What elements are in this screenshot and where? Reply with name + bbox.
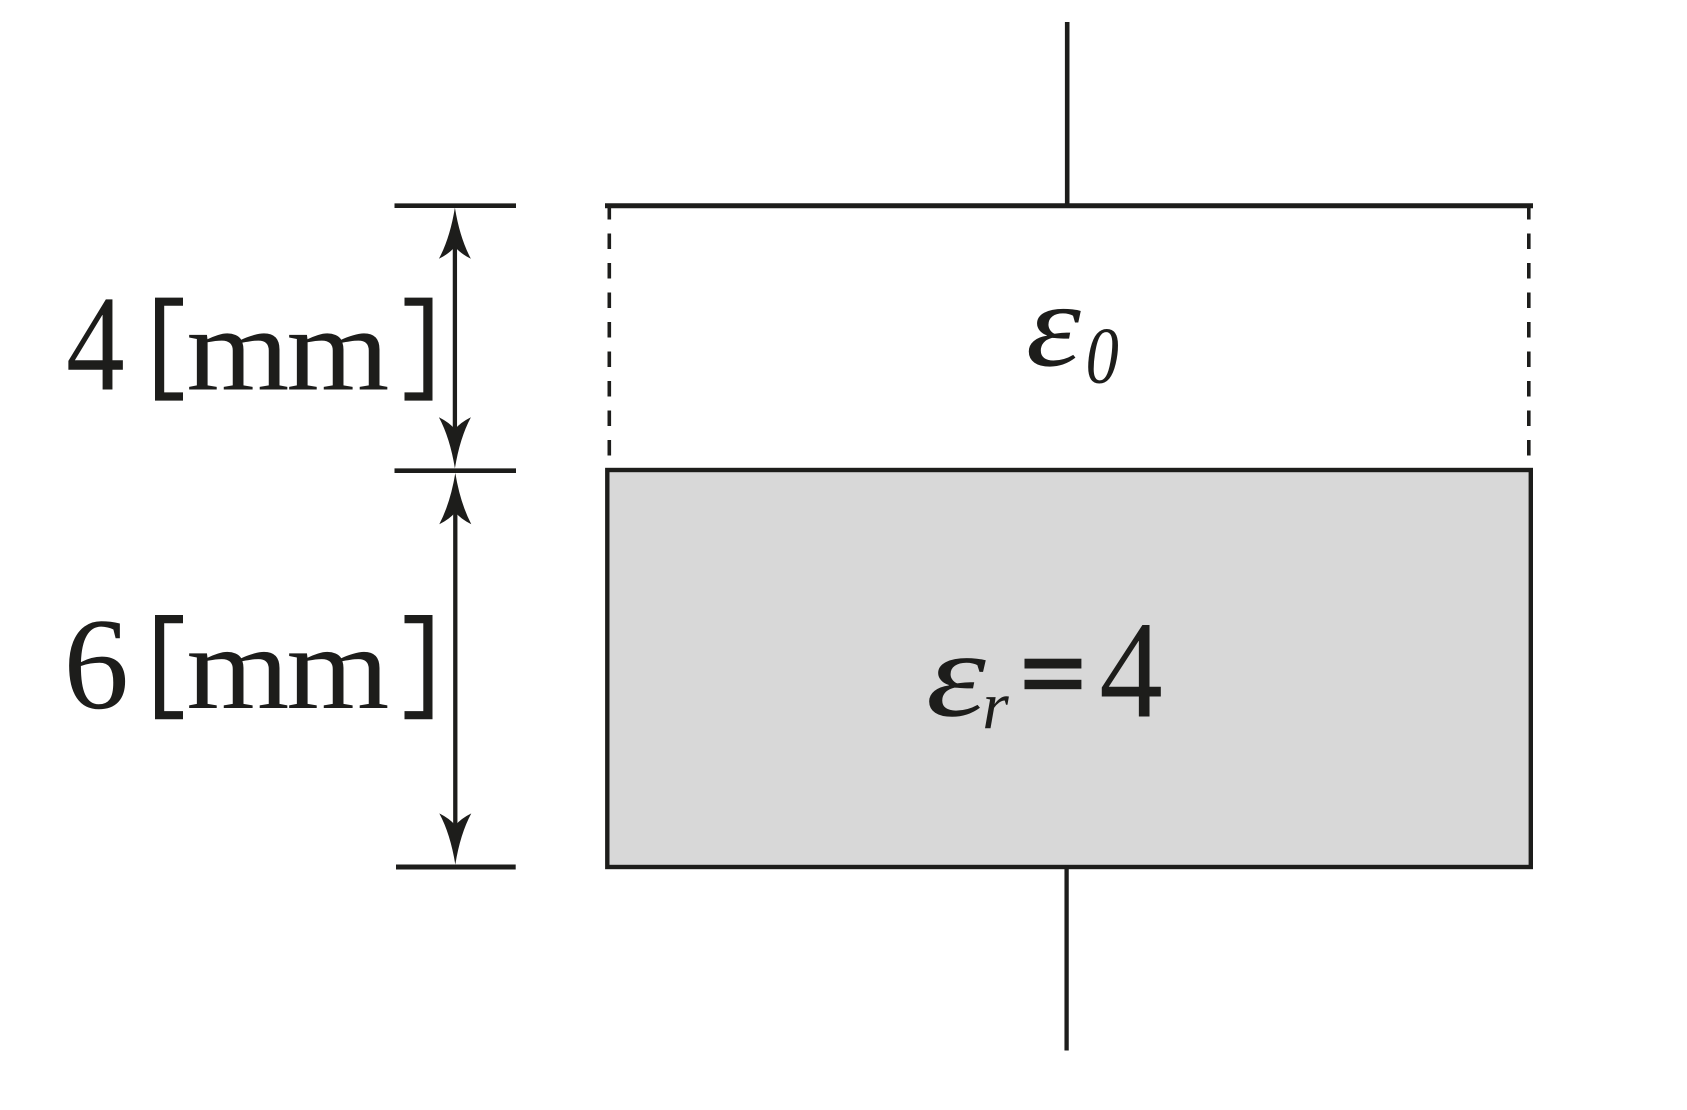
wire bottom lead <box>1064 867 1068 1051</box>
wire top lead <box>1065 22 1070 207</box>
svg-text:4: 4 <box>66 268 125 420</box>
air-gap left dashed boundary <box>607 204 611 462</box>
top capacitor plate <box>605 203 1533 208</box>
svg-text:r: r <box>982 668 1009 744</box>
dimension extension tick middle (air/dielectric interface) <box>395 468 517 473</box>
air-gap right dashed boundary <box>1527 204 1531 462</box>
dielectric slab er=4 <box>607 470 1531 867</box>
label epsilon_r = 4 <box>926 594 1163 748</box>
svg-text:0: 0 <box>1086 313 1119 401</box>
svg-text:ε: ε <box>1026 258 1082 391</box>
dimension extension tick bottom (bottom plate level) <box>396 865 516 870</box>
svg-text:m: m <box>286 284 389 416</box>
svg-text:4: 4 <box>1099 594 1163 748</box>
dimension arrow 4 mm (double-headed) <box>439 208 471 469</box>
svg-text:m: m <box>286 602 389 734</box>
svg-text:m: m <box>186 602 289 734</box>
label 6 [mm] <box>64 592 433 737</box>
svg-text:ε: ε <box>926 608 986 743</box>
svg-text:6: 6 <box>64 592 130 737</box>
label 4 [mm] <box>66 268 432 420</box>
dimension arrow 6 mm (double-headed) <box>439 473 471 865</box>
dimension extension tick top (at top plate level) <box>395 203 517 208</box>
svg-text:m: m <box>186 284 289 416</box>
label epsilon_0 (air permittivity) <box>1026 258 1119 400</box>
